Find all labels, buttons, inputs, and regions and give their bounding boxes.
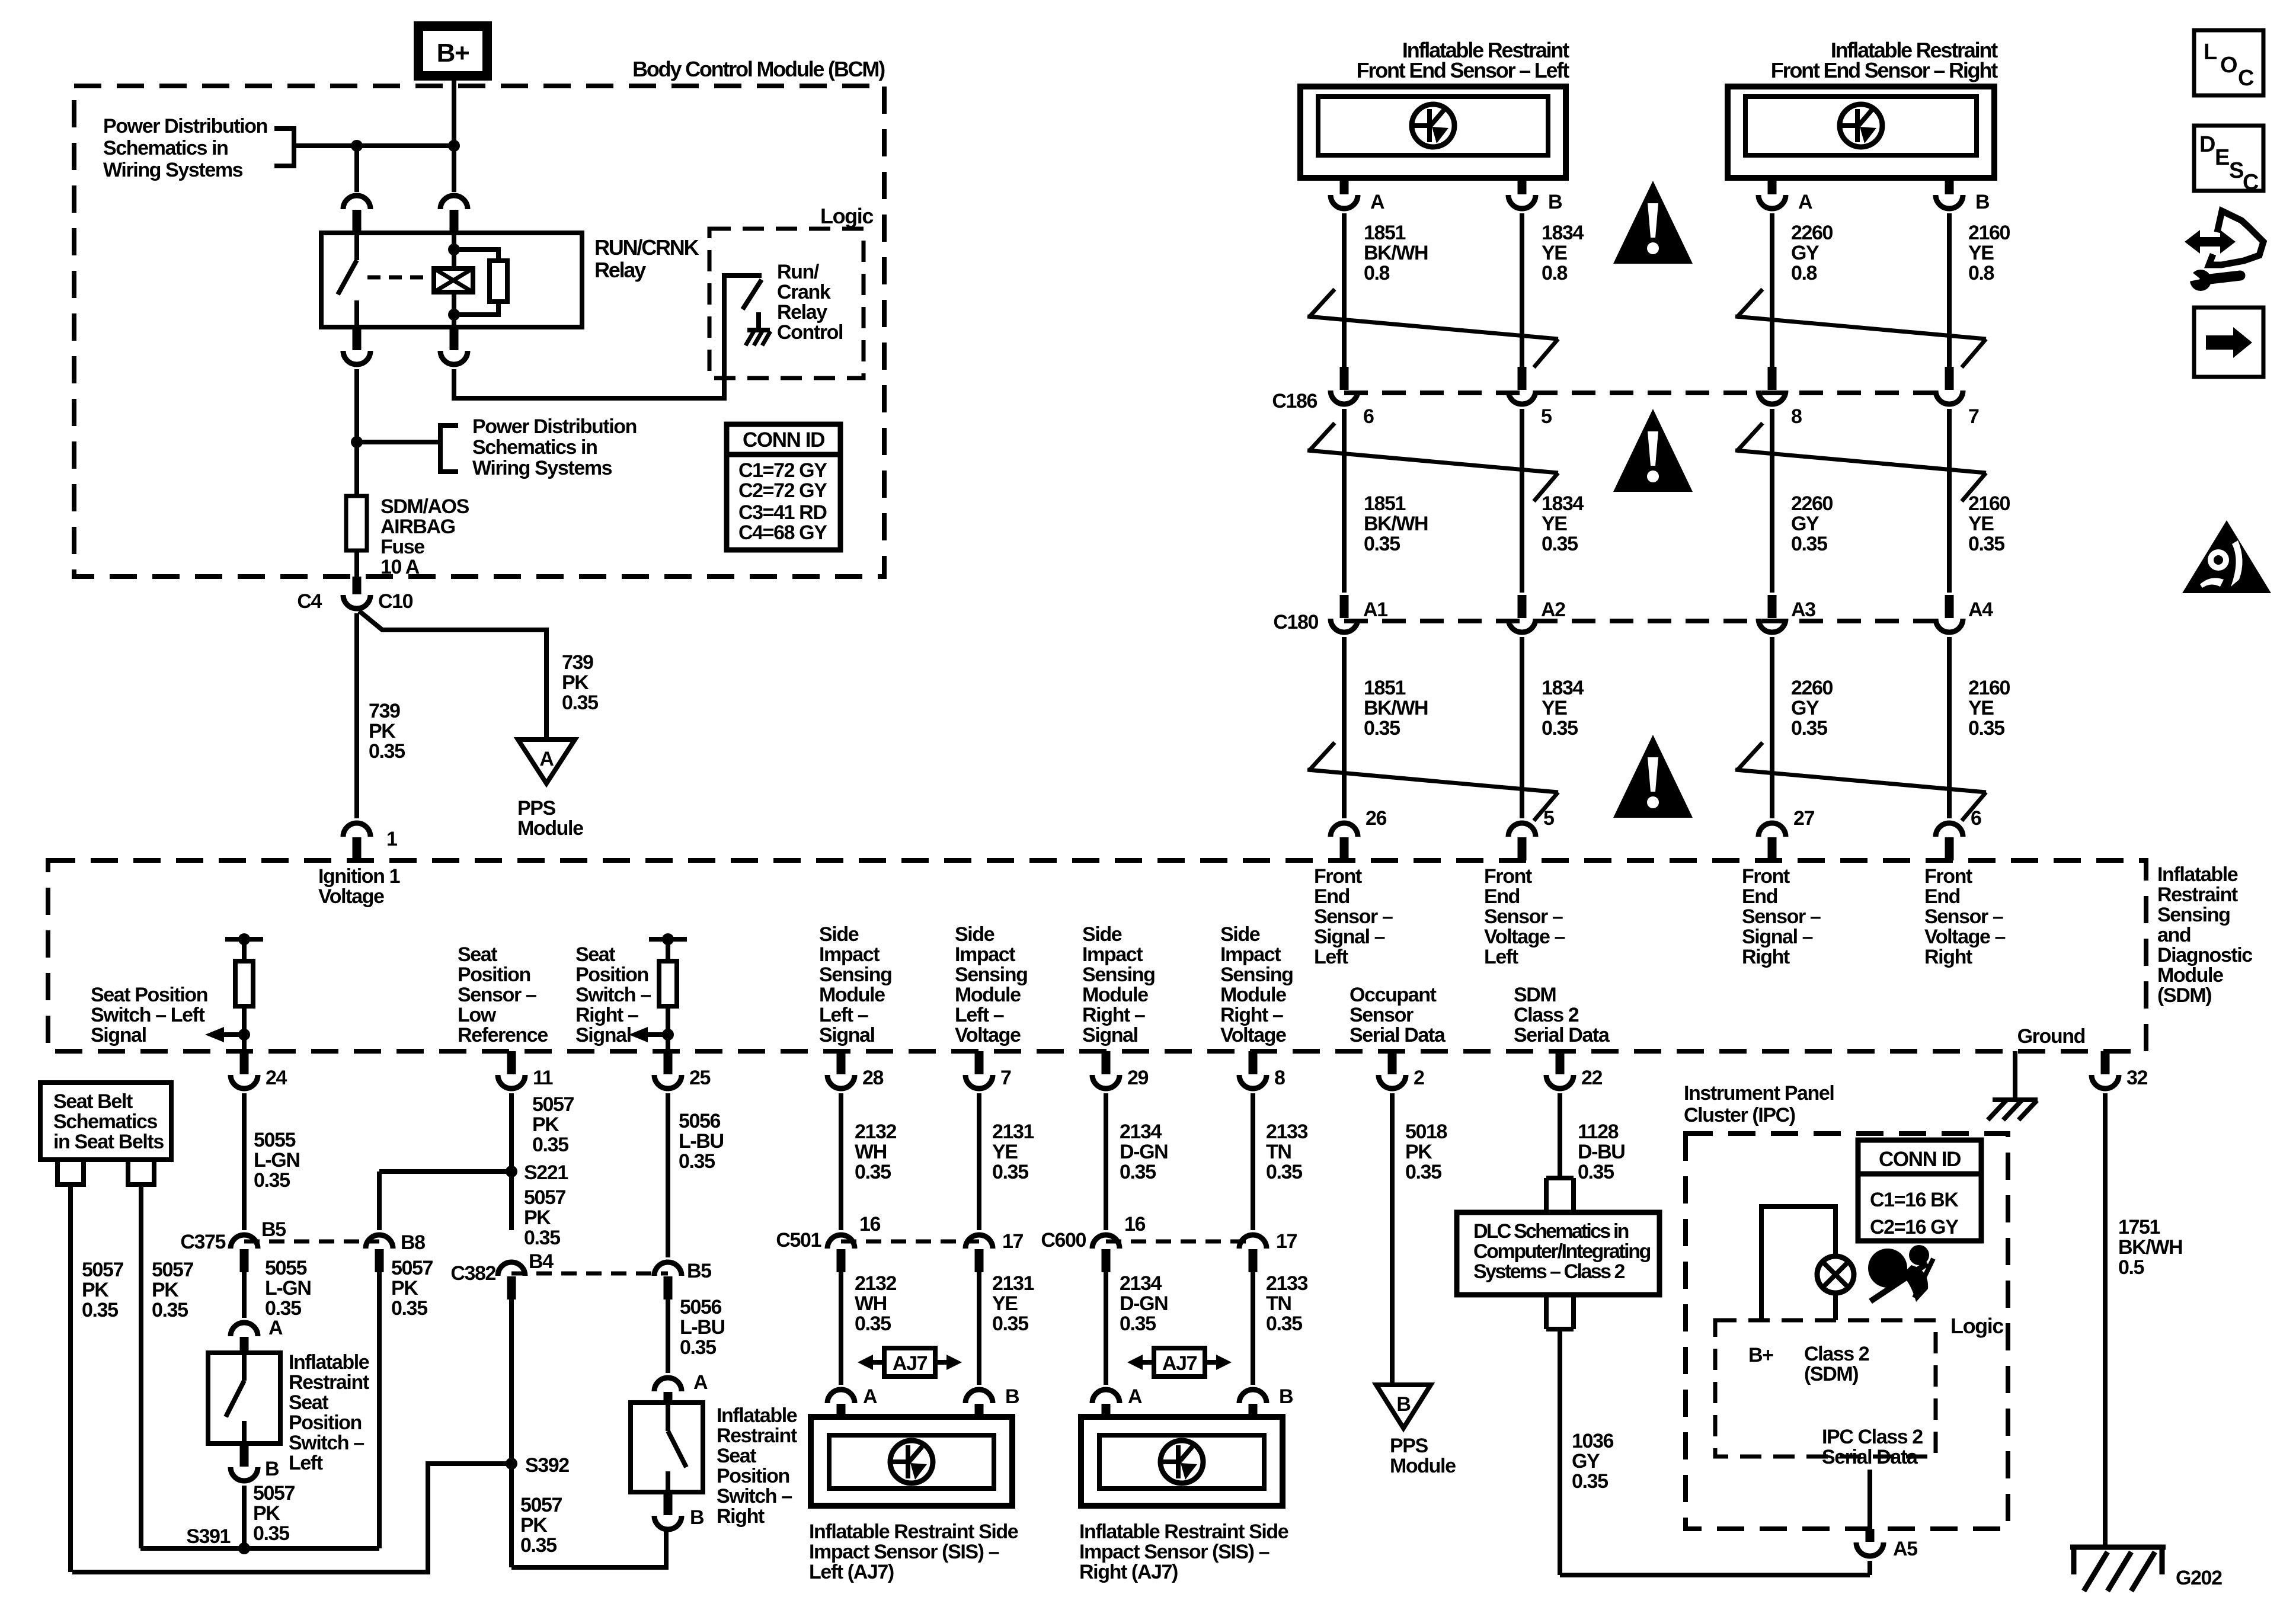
svg-text:5: 5 [1543,807,1554,830]
svg-text:Signal: Signal [91,1024,146,1046]
svg-text:End: End [1484,885,1520,908]
svg-text:L-BU: L-BU [680,1316,725,1339]
svg-text:GY: GY [1791,513,1819,535]
svg-text:Right: Right [1924,946,1972,968]
svg-text:Instrument Panel: Instrument Panel [1684,1082,1834,1105]
svg-text:End: End [1924,885,1960,908]
svg-text:PK: PK [82,1279,109,1301]
svg-text:8: 8 [1274,1067,1285,1089]
svg-text:16: 16 [859,1213,881,1235]
svg-text:0.35: 0.35 [992,1161,1028,1183]
svg-text:G202: G202 [2176,1567,2222,1589]
svg-text:C600: C600 [1041,1229,1086,1251]
svg-text:Front: Front [1924,865,1972,888]
svg-text:PK: PK [152,1279,179,1301]
svg-text:PK: PK [532,1113,559,1136]
svg-text:S221: S221 [524,1161,568,1184]
svg-text:Restraint: Restraint [2157,884,2238,906]
svg-text:Run/: Run/ [777,261,820,283]
svg-text:29: 29 [1127,1067,1149,1089]
svg-text:2160: 2160 [1968,677,2010,699]
svg-text:1834: 1834 [1542,492,1584,515]
svg-text:C2=72 GY: C2=72 GY [738,479,827,502]
svg-text:2134: 2134 [1120,1272,1162,1295]
svg-text:Sensor: Sensor [1350,1004,1414,1026]
svg-text:B: B [1548,191,1562,213]
svg-text:Impact: Impact [955,943,1015,966]
svg-text:Voltage: Voltage [955,1024,1021,1046]
svg-text:Module: Module [1390,1455,1456,1477]
svg-text:Impact: Impact [819,943,880,966]
svg-text:Low: Low [458,1004,497,1026]
svg-text:Sensor –: Sensor – [458,984,536,1006]
svg-text:Voltage: Voltage [318,885,384,908]
svg-text:1834: 1834 [1542,222,1584,244]
svg-text:SDM: SDM [1514,984,1556,1006]
svg-text:0.35: 0.35 [1968,533,2004,555]
svg-text:0.8: 0.8 [1364,262,1390,284]
svg-text:C2=16 GY: C2=16 GY [1870,1216,1959,1238]
svg-text:28: 28 [862,1067,884,1089]
svg-text:TN: TN [1266,1141,1291,1163]
svg-text:(SDM): (SDM) [2157,984,2211,1007]
svg-text:2132: 2132 [855,1121,897,1143]
svg-text:Power Distribution: Power Distribution [103,115,267,137]
svg-text:Left: Left [1314,946,1348,968]
svg-text:2160: 2160 [1968,222,2010,244]
svg-text:0.35: 0.35 [1578,1161,1614,1183]
svg-text:End: End [1742,885,1777,908]
svg-text:5055: 5055 [265,1257,307,1279]
svg-text:Impact: Impact [1082,943,1143,966]
svg-text:D-GN: D-GN [1120,1141,1168,1163]
svg-text:5056: 5056 [679,1110,721,1132]
svg-text:C: C [2243,170,2259,195]
svg-text:5018: 5018 [1405,1121,1447,1143]
svg-text:Fuse: Fuse [380,536,424,558]
svg-text:2260: 2260 [1791,677,1833,699]
svg-text:2: 2 [1414,1067,1424,1089]
svg-text:A5: A5 [1893,1538,1917,1560]
svg-text:Computer/Integrating: Computer/Integrating [1473,1240,1651,1263]
svg-text:0.35: 0.35 [82,1299,118,1321]
svg-text:Logic: Logic [1950,1314,2003,1338]
svg-text:0.8: 0.8 [1542,262,1568,284]
svg-text:2260: 2260 [1791,222,1833,244]
svg-text:AIRBAG: AIRBAG [380,516,455,538]
svg-text:YE: YE [992,1292,1018,1315]
svg-text:Right: Right [717,1505,765,1528]
svg-text:0.35: 0.35 [1266,1313,1302,1335]
svg-text:Restraint: Restraint [289,1371,369,1394]
svg-text:Position: Position [575,964,648,986]
svg-text:0.35: 0.35 [254,1169,290,1192]
svg-text:5057: 5057 [520,1494,562,1516]
svg-text:Seat Belt: Seat Belt [53,1090,133,1113]
svg-text:Wiring Systems: Wiring Systems [103,159,243,181]
svg-text:Relay: Relay [594,258,646,282]
svg-text:0.35: 0.35 [1266,1161,1302,1183]
svg-text:Front End Sensor – Left: Front End Sensor – Left [1357,58,1570,82]
svg-text:Module: Module [517,817,583,840]
svg-text:Seat: Seat [458,943,497,966]
svg-text:1851: 1851 [1364,677,1406,699]
svg-text:Right (AJ7): Right (AJ7) [1079,1561,1178,1583]
svg-text:B+: B+ [1748,1344,1773,1366]
svg-text:Impact Sensor (SIS) –: Impact Sensor (SIS) – [809,1541,999,1563]
svg-text:5056: 5056 [680,1296,722,1318]
svg-text:A: A [539,748,554,770]
svg-text:Right –: Right – [575,1004,638,1026]
svg-text:0.35: 0.35 [520,1534,557,1557]
svg-text:0.5: 0.5 [2118,1256,2144,1279]
svg-text:Crank: Crank [777,281,831,303]
svg-text:Side: Side [819,923,859,946]
svg-text:5057: 5057 [524,1186,566,1209]
svg-text:0.35: 0.35 [679,1150,715,1173]
svg-text:A: A [693,1371,708,1394]
svg-text:0.35: 0.35 [680,1336,716,1359]
svg-text:0.35: 0.35 [1572,1470,1608,1493]
svg-text:C3=41 RD: C3=41 RD [738,501,827,524]
svg-text:A: A [1370,191,1384,213]
svg-text:Systems – Class 2: Systems – Class 2 [1473,1260,1625,1283]
svg-text:5057: 5057 [253,1482,295,1505]
svg-text:Restraint: Restraint [717,1425,797,1447]
svg-text:Serial Data: Serial Data [1822,1446,1918,1468]
svg-text:Occupant: Occupant [1350,984,1437,1006]
svg-text:Inflatable: Inflatable [717,1404,797,1427]
svg-text:B+: B+ [437,39,469,68]
svg-text:Position: Position [458,964,530,986]
svg-text:Serial Data: Serial Data [1514,1024,1610,1046]
svg-text:Voltage –: Voltage – [1484,926,1565,948]
svg-text:Switch –: Switch – [575,984,651,1006]
svg-text:Left (AJ7): Left (AJ7) [809,1561,894,1583]
svg-text:Switch –: Switch – [717,1485,792,1507]
svg-text:6: 6 [1971,807,1981,830]
svg-text:Side: Side [955,923,994,946]
svg-text:S391: S391 [186,1525,230,1548]
svg-text:Schematics in: Schematics in [472,436,597,459]
svg-text:Logic: Logic [820,204,873,228]
svg-text:Right: Right [1742,946,1790,968]
svg-text:Inflatable: Inflatable [2157,863,2238,886]
svg-text:PK: PK [253,1502,280,1525]
svg-text:7: 7 [1968,405,1979,428]
svg-text:2133: 2133 [1266,1272,1308,1295]
svg-text:0.35: 0.35 [1542,717,1578,740]
svg-text:AJ7: AJ7 [1162,1352,1197,1375]
svg-text:Left: Left [289,1452,323,1474]
svg-text:16: 16 [1124,1213,1146,1235]
svg-text:Power Distribution: Power Distribution [472,415,637,438]
svg-text:0.35: 0.35 [369,740,405,763]
svg-text:B4: B4 [529,1250,554,1273]
svg-text:B: B [1005,1385,1019,1408]
svg-text:SDM/AOS: SDM/AOS [380,495,469,518]
svg-text:B8: B8 [401,1231,425,1254]
svg-text:2133: 2133 [1266,1121,1308,1143]
svg-text:Class 2: Class 2 [1804,1343,1869,1365]
svg-text:B5: B5 [687,1260,711,1282]
svg-text:Serial Data: Serial Data [1350,1024,1446,1046]
svg-text:0.35: 0.35 [1542,533,1578,555]
svg-text:0.8: 0.8 [1968,262,1994,284]
svg-text:1851: 1851 [1364,492,1406,515]
svg-text:Sensing: Sensing [1082,964,1155,986]
svg-text:PK: PK [562,671,589,694]
svg-text:B: B [1396,1393,1411,1416]
svg-text:Sensor –: Sensor – [1742,905,1821,928]
svg-text:0.8: 0.8 [1791,262,1817,284]
svg-text:Sensing: Sensing [1220,964,1293,986]
svg-text:C382: C382 [450,1262,495,1285]
svg-text:0.35: 0.35 [152,1299,188,1321]
svg-text:Seat: Seat [289,1391,328,1414]
svg-text:Inflatable Restraint Side: Inflatable Restraint Side [809,1521,1018,1543]
svg-text:Ground: Ground [2017,1025,2085,1048]
svg-text:Seat: Seat [717,1445,756,1467]
svg-text:Sensing: Sensing [819,964,891,986]
svg-text:C1=72 GY: C1=72 GY [738,459,827,482]
svg-text:2160: 2160 [1968,492,2010,515]
svg-text:Impact: Impact [1220,943,1281,966]
svg-text:Schematics: Schematics [53,1110,157,1133]
svg-text:B: B [265,1458,279,1480]
svg-text:0.35: 0.35 [992,1313,1028,1335]
svg-text:Voltage –: Voltage – [1924,926,2006,948]
svg-text:0.35: 0.35 [253,1522,289,1545]
svg-text:GY: GY [1572,1450,1600,1473]
svg-text:0.35: 0.35 [1405,1161,1441,1183]
svg-text:BK/WH: BK/WH [1364,513,1428,535]
svg-text:22: 22 [1581,1067,1603,1089]
svg-text:and: and [2157,924,2191,946]
svg-text:PK: PK [391,1277,418,1299]
svg-text:S392: S392 [525,1454,569,1477]
svg-text:PK: PK [524,1206,551,1229]
svg-text:YE: YE [1542,697,1567,719]
svg-text:BK/WH: BK/WH [1364,242,1428,264]
svg-text:5057: 5057 [152,1259,194,1281]
svg-text:Module: Module [2157,964,2223,987]
svg-text:24: 24 [266,1067,287,1089]
svg-text:D: D [2199,132,2215,157]
svg-text:Sensor –: Sensor – [1484,905,1563,928]
svg-text:Wiring Systems: Wiring Systems [472,457,612,479]
svg-text:Schematics in: Schematics in [103,137,228,159]
svg-text:Right –: Right – [1220,1004,1283,1026]
svg-text:0.35: 0.35 [391,1297,427,1320]
svg-text:PK: PK [369,720,396,742]
svg-text:A2: A2 [1541,598,1565,621]
svg-text:(SDM): (SDM) [1804,1363,1858,1385]
svg-text:L-GN: L-GN [265,1277,311,1299]
svg-text:E: E [2215,145,2229,170]
svg-text:DLC Schematics in: DLC Schematics in [1473,1220,1629,1243]
svg-text:1036: 1036 [1572,1430,1614,1452]
svg-text:C180: C180 [1273,611,1318,633]
svg-text:0.35: 0.35 [532,1134,568,1156]
svg-text:A: A [1128,1385,1142,1408]
svg-text:in Seat Belts: in Seat Belts [53,1131,164,1153]
svg-text:32: 32 [2126,1067,2148,1089]
svg-text:A: A [268,1317,283,1339]
svg-text:A: A [863,1385,877,1408]
svg-text:25: 25 [689,1067,711,1089]
svg-text:A4: A4 [1968,598,1993,621]
svg-text:Signal: Signal [1082,1024,1138,1046]
svg-text:BK/WH: BK/WH [2118,1236,2182,1259]
svg-text:2131: 2131 [992,1121,1034,1143]
svg-text:Reference: Reference [458,1024,548,1046]
svg-text:0.35: 0.35 [855,1161,891,1183]
svg-text:B: B [1975,191,1990,213]
svg-text:Left: Left [1484,946,1518,968]
svg-text:1128: 1128 [1578,1121,1619,1143]
svg-text:GY: GY [1791,242,1819,264]
svg-text:27: 27 [1793,807,1815,830]
svg-text:Signal: Signal [575,1024,631,1046]
svg-text:Signal –: Signal – [1742,926,1813,948]
svg-text:C375: C375 [180,1231,225,1253]
svg-text:Voltage: Voltage [1220,1024,1286,1046]
svg-text:1: 1 [386,828,397,850]
svg-text:Relay: Relay [777,301,827,324]
svg-text:0.35: 0.35 [562,692,598,714]
svg-text:0.35: 0.35 [1120,1313,1156,1335]
svg-text:Signal –: Signal – [1314,926,1385,948]
svg-text:6: 6 [1363,405,1374,428]
svg-text:YE: YE [1968,697,1994,719]
svg-text:1834: 1834 [1542,677,1584,699]
svg-text:C10: C10 [378,590,413,613]
svg-text:739: 739 [562,651,593,674]
svg-text:YE: YE [1542,242,1567,264]
svg-text:7: 7 [1000,1067,1011,1089]
svg-text:Control: Control [777,321,843,344]
svg-text:0.35: 0.35 [1120,1161,1156,1183]
svg-text:GY: GY [1791,697,1819,719]
svg-text:C: C [2238,66,2254,91]
svg-text:C1=16 BK: C1=16 BK [1870,1189,1959,1211]
svg-text:0.35: 0.35 [1364,533,1400,555]
svg-text:0.35: 0.35 [1968,717,2004,740]
svg-text:Cluster (IPC): Cluster (IPC) [1684,1104,1795,1126]
svg-text:Position: Position [717,1465,789,1487]
svg-text:B: B [690,1506,704,1529]
svg-text:Module: Module [955,984,1021,1006]
svg-text:Inflatable Restraint Side: Inflatable Restraint Side [1079,1521,1288,1543]
svg-text:Right –: Right – [1082,1004,1145,1026]
svg-text:Sensing: Sensing [955,964,1027,986]
svg-text:Diagnostic: Diagnostic [2157,944,2252,966]
svg-text:A3: A3 [1791,598,1815,621]
svg-text:5055: 5055 [254,1129,296,1151]
svg-text:IPC Class 2: IPC Class 2 [1822,1426,1923,1448]
svg-text:Front: Front [1484,865,1532,888]
svg-text:PPS: PPS [1390,1435,1428,1457]
svg-text:YE: YE [1968,513,1994,535]
svg-text:17: 17 [1002,1230,1024,1253]
svg-text:Body Control Module (BCM): Body Control Module (BCM) [632,57,885,81]
svg-text:C186: C186 [1272,390,1317,412]
svg-text:2260: 2260 [1791,492,1833,515]
svg-text:Sensor –: Sensor – [1314,905,1393,928]
svg-text:C4: C4 [297,590,322,613]
svg-text:RUN/CRNK: RUN/CRNK [594,235,699,260]
svg-text:2134: 2134 [1120,1121,1162,1143]
svg-text:Front: Front [1742,865,1790,888]
svg-text:B5: B5 [261,1218,286,1241]
svg-text:2132: 2132 [855,1272,897,1295]
svg-text:Side: Side [1220,923,1260,946]
svg-text:Signal: Signal [819,1024,875,1046]
svg-text:Switch – Left: Switch – Left [91,1004,205,1026]
svg-text:Module: Module [819,984,885,1006]
svg-text:1751: 1751 [2118,1216,2160,1238]
svg-text:0.35: 0.35 [855,1313,891,1335]
svg-text:PK: PK [520,1514,548,1537]
svg-text:CONN ID: CONN ID [743,428,824,452]
svg-text:Seat: Seat [575,943,615,966]
svg-text:Module: Module [1220,984,1286,1006]
svg-text:739: 739 [369,700,400,722]
svg-text:C4=68 GY: C4=68 GY [738,521,827,544]
svg-text:YE: YE [1542,513,1567,535]
svg-text:CONN ID: CONN ID [1879,1148,1961,1171]
svg-text:AJ7: AJ7 [893,1352,928,1375]
svg-text:Inflatable: Inflatable [289,1351,369,1374]
svg-text:Switch –: Switch – [289,1432,364,1454]
svg-text:0.35: 0.35 [1791,717,1827,740]
svg-text:5057: 5057 [82,1259,124,1281]
svg-text:8: 8 [1791,405,1802,428]
svg-text:A1: A1 [1363,598,1387,621]
svg-text:Module: Module [1082,984,1148,1006]
svg-text:L-BU: L-BU [679,1130,724,1153]
svg-text:11: 11 [533,1067,553,1089]
svg-text:Sensing: Sensing [2157,904,2230,926]
svg-text:Side: Side [1082,923,1122,946]
svg-text:C501: C501 [776,1229,821,1251]
svg-text:Front: Front [1314,865,1362,888]
svg-text:26: 26 [1366,807,1387,830]
svg-text:5057: 5057 [532,1093,574,1116]
svg-text:2131: 2131 [992,1272,1034,1295]
svg-text:WH: WH [855,1141,887,1163]
svg-text:End: End [1314,885,1350,908]
svg-text:Left –: Left – [819,1004,868,1026]
svg-text:D-GN: D-GN [1120,1292,1168,1315]
svg-text:PPS: PPS [517,797,556,820]
svg-text:Left –: Left – [955,1004,1004,1026]
svg-text:1851: 1851 [1364,222,1406,244]
svg-text:WH: WH [855,1292,887,1315]
svg-text:YE: YE [1968,242,1994,264]
svg-text:S: S [2229,158,2243,183]
svg-text:B: B [1279,1385,1293,1408]
svg-text:Sensor –: Sensor – [1924,905,2003,928]
svg-text:Class 2: Class 2 [1514,1004,1579,1026]
svg-text:0.35: 0.35 [1791,533,1827,555]
svg-text:YE: YE [992,1141,1018,1163]
svg-text:0.35: 0.35 [524,1227,560,1249]
svg-text:Ignition 1: Ignition 1 [318,865,400,888]
svg-text:Impact Sensor (SIS) –: Impact Sensor (SIS) – [1079,1541,1269,1563]
svg-text:D-BU: D-BU [1578,1141,1625,1163]
